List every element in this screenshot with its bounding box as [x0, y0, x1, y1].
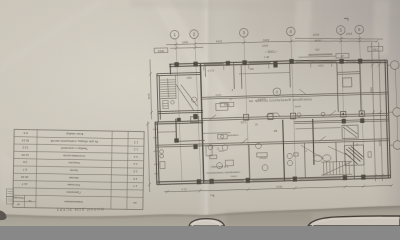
door arc circle	[191, 97, 196, 102]
stamp boxes left of table	[7, 189, 14, 204]
top dimension line	[166, 37, 379, 48]
open column V5	[341, 111, 346, 117]
column A3a	[273, 61, 277, 68]
closet hatch above stairs	[342, 125, 358, 138]
right bubbles connector	[395, 70, 397, 108]
furniture mid room	[216, 103, 228, 110]
grid bubble 4	[286, 27, 295, 36]
grid bubble 5	[336, 26, 345, 35]
tick marks under bubbles	[175, 47, 178, 50]
door circle corridor b	[321, 112, 325, 116]
circled num a	[216, 163, 222, 169]
kitchen fixture rect	[218, 134, 228, 139]
column A5	[339, 59, 344, 64]
partition vertical x282	[283, 120, 285, 181]
kitchen counter rect2	[206, 146, 212, 156]
corner mark top	[344, 18, 348, 21]
table texts (upside down)	[12, 131, 138, 207]
door circle rowG a	[222, 145, 228, 151]
upper flight hatch	[345, 146, 363, 164]
column bottom B3	[246, 178, 251, 183]
paper streaks top-right	[294, 0, 312, 60]
scattered tiny texts	[186, 65, 360, 179]
wc basin circle	[171, 100, 175, 104]
stair up arrow diagonal	[301, 145, 323, 160]
secondary dim segment right	[298, 56, 335, 57]
wc toilet circle 1	[287, 153, 292, 158]
misc rect room	[257, 153, 268, 157]
stair wing top wall	[157, 72, 201, 73]
kitchen partition vertical	[175, 119, 178, 142]
grid bubble 3	[239, 28, 248, 37]
wc sink rect	[294, 153, 299, 156]
open column V3	[243, 114, 248, 120]
stair diagonal	[322, 162, 351, 175]
table column line 3	[127, 131, 128, 209]
upper flight border	[344, 145, 364, 166]
table column line 1	[36, 130, 37, 208]
grid line axis 2	[195, 39, 201, 182]
bath oval 2	[323, 155, 332, 162]
grid line axis 4	[291, 36, 296, 178]
grid line axis 6	[359, 34, 364, 176]
interior wall row V	[202, 113, 388, 118]
bottom outer wall	[156, 176, 390, 183]
partition horizontal 202-246 y133	[203, 132, 231, 135]
column A6	[358, 59, 363, 64]
grid bubble row G right edge	[390, 141, 400, 150]
partition horizontal x300-340 y131	[295, 128, 340, 129]
left lower outer wall	[155, 122, 157, 184]
circled num b	[262, 165, 268, 171]
secondary dim segment under bubbles 1-2	[170, 46, 203, 49]
label box PK3	[220, 102, 234, 107]
open column V6	[359, 111, 364, 117]
column A2	[193, 62, 198, 67]
open column V mid	[268, 114, 273, 120]
partition vertical x335	[335, 142, 338, 162]
left wall ticks	[153, 129, 158, 174]
grid bubble row B right edge	[387, 61, 399, 70]
band darker patch between blobs	[226, 212, 312, 226]
vertical fold crease	[196, 0, 220, 226]
stair rail	[167, 78, 170, 97]
column A3	[242, 60, 247, 65]
axis6 shaft wall	[360, 62, 361, 112]
table header split	[13, 200, 36, 202]
label box top-left	[154, 48, 168, 53]
open column dot V6	[361, 113, 363, 115]
column rowG axis2	[193, 144, 197, 149]
partition vertical x303	[303, 143, 306, 178]
wing junction open box	[191, 117, 199, 123]
window sill band right	[308, 53, 332, 56]
interior middle wall row B	[202, 92, 388, 97]
bath oval 1	[314, 155, 323, 162]
column A1	[174, 62, 179, 67]
paper roll object bottom-right	[308, 216, 400, 226]
table rect lower	[225, 160, 233, 166]
grid bubble 2	[190, 30, 199, 39]
kitchen shelf line	[158, 131, 176, 134]
stair wing left wall	[157, 74, 158, 122]
top outer wall	[169, 58, 387, 66]
partition stub axis4 below top wall	[289, 63, 292, 87]
partition stub axis3 below top wall	[240, 65, 243, 89]
label box top-right A	[368, 46, 383, 51]
wing bottom wall	[158, 110, 203, 111]
column A4	[289, 59, 294, 64]
open column V4	[290, 113, 295, 119]
circled room number 1	[208, 145, 213, 150]
column bottom B5	[343, 175, 348, 180]
funnel diagonal wall a	[176, 84, 194, 111]
door circle corridor a	[297, 113, 301, 117]
radiator right	[368, 152, 371, 158]
grid bubble 6	[355, 25, 364, 34]
top edge dim band	[130, 0, 400, 14]
grid line axis 1	[176, 39, 182, 182]
kitchen circle	[221, 135, 224, 138]
column corridor V5	[342, 119, 346, 124]
wc fixture hatched	[163, 101, 169, 109]
table outline	[13, 129, 144, 209]
kitchen partition horizontal	[177, 139, 205, 142]
larder rect	[160, 162, 165, 169]
partition vertical x248	[248, 145, 251, 180]
partition vertical x352	[353, 142, 354, 179]
left wall upper stub	[169, 64, 171, 74]
tick cluster below top wall	[204, 63, 332, 71]
grid line axis 3	[244, 37, 249, 179]
column bottom B6	[361, 175, 366, 180]
column rowV axis2	[193, 114, 198, 119]
paper roll object bottom-center	[189, 219, 225, 226]
table column line 2	[111, 131, 112, 209]
partition stub x205	[204, 66, 206, 77]
stair upper flight diagonal	[328, 146, 351, 158]
partition vertical x235	[233, 63, 236, 89]
shaft connector wall	[337, 71, 360, 74]
column bottom mid	[209, 179, 214, 184]
window marks bottom wall	[205, 177, 387, 182]
grid bubble row V right edge	[388, 108, 400, 117]
corner mark bottom	[210, 195, 214, 197]
grid bubble 1	[170, 30, 179, 39]
axis5 shaft wall	[337, 62, 338, 112]
paper edge shadow	[0, 206, 400, 226]
diagonal light crease top-left	[150, 0, 240, 118]
wc toilet circle 2	[287, 160, 292, 165]
partition vertical x312	[313, 119, 314, 165]
paper roll right highlight	[312, 218, 400, 226]
larder circle b	[160, 154, 164, 158]
left dim vertical lower	[146, 121, 151, 192]
funnel diagonal wall b	[181, 84, 198, 106]
left jut wall	[155, 121, 203, 122]
dark spot bottom-left corner	[0, 211, 7, 221]
grid line axis 5	[341, 35, 346, 177]
column A2a	[226, 61, 230, 66]
column kitchen	[174, 138, 179, 142]
wing junction filled col	[177, 118, 181, 122]
stair treads	[160, 79, 175, 81]
paper roll highlight center	[192, 220, 221, 226]
column corridor V6	[360, 118, 364, 123]
interior wall row G	[156, 139, 389, 146]
column bottom B2	[197, 179, 202, 184]
table row lines	[13, 137, 144, 198]
circled room number 2	[273, 88, 281, 96]
door trapezoid mark row V	[266, 113, 280, 117]
larder circle a	[160, 150, 164, 154]
column bottom B4	[293, 177, 298, 182]
door opening marks middle wall	[209, 88, 336, 144]
sill line below top wall	[239, 72, 290, 73]
corridor lower wall right	[294, 119, 388, 122]
interior vertical wall at axis 2	[200, 64, 203, 183]
door circle rowG b	[256, 143, 262, 149]
open column dot V5	[342, 113, 344, 115]
label box mid-right B	[336, 53, 349, 58]
secondary dim line right	[295, 36, 383, 42]
wc room divider	[161, 97, 177, 99]
right outer wall	[385, 60, 388, 178]
shaft inner box	[343, 78, 352, 87]
closet rect a	[210, 155, 217, 159]
